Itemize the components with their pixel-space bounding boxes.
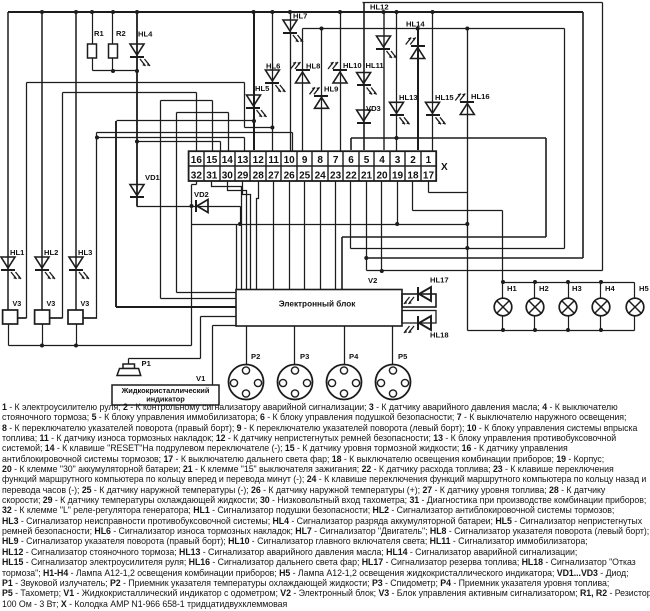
svg-text:P1: P1	[142, 359, 152, 368]
svg-text:HL1: HL1	[10, 248, 25, 257]
svg-text:HL13: HL13	[399, 93, 418, 102]
svg-text:R2: R2	[116, 29, 126, 38]
svg-text:17: 17	[423, 170, 435, 181]
svg-text:VD1: VD1	[145, 173, 161, 182]
svg-text:28: 28	[253, 170, 265, 181]
svg-text:V3: V3	[13, 299, 22, 308]
svg-text:3: 3	[395, 155, 401, 166]
svg-text:11: 11	[268, 155, 279, 166]
svg-text:HL5: HL5	[255, 84, 270, 93]
svg-text:10: 10	[284, 155, 296, 166]
svg-text:22: 22	[346, 170, 358, 181]
svg-text:HL15: HL15	[435, 93, 454, 102]
svg-text:8: 8	[317, 155, 323, 166]
svg-text:30: 30	[222, 170, 234, 181]
svg-text:HL9: HL9	[324, 85, 338, 94]
svg-text:9: 9	[302, 155, 308, 166]
svg-text:V2: V2	[368, 276, 377, 285]
svg-text:H5: H5	[639, 284, 649, 293]
svg-text:HL12: HL12	[370, 3, 389, 12]
svg-text:1: 1	[426, 155, 432, 166]
svg-text:HL4: HL4	[138, 30, 153, 39]
svg-text:HL17: HL17	[430, 276, 449, 285]
svg-text:H2: H2	[539, 284, 549, 293]
svg-text:R1: R1	[94, 29, 104, 38]
svg-text:H1: H1	[507, 284, 517, 293]
svg-text:X: X	[441, 162, 448, 173]
svg-text:5: 5	[364, 155, 370, 166]
svg-text:HL8: HL8	[306, 62, 320, 71]
svg-text:26: 26	[284, 170, 296, 181]
svg-text:16: 16	[191, 155, 203, 166]
svg-text:18: 18	[407, 170, 419, 181]
svg-text:HL18: HL18	[430, 331, 449, 340]
svg-text:7: 7	[333, 155, 339, 166]
svg-text:HL10: HL10	[343, 61, 362, 70]
svg-text:13: 13	[237, 155, 249, 166]
svg-text:P2: P2	[251, 352, 260, 361]
svg-text:HL2: HL2	[44, 248, 58, 257]
svg-text:VD3: VD3	[366, 104, 381, 113]
svg-text:HL14: HL14	[406, 20, 425, 29]
svg-text:HL16: HL16	[471, 92, 490, 101]
svg-text:19: 19	[392, 170, 404, 181]
svg-text:12: 12	[253, 155, 265, 166]
svg-text:27: 27	[268, 170, 280, 181]
svg-text:29: 29	[237, 170, 249, 181]
svg-text:HL6: HL6	[266, 62, 280, 71]
svg-text:24: 24	[315, 170, 327, 181]
svg-text:23: 23	[330, 170, 342, 181]
svg-text:25: 25	[299, 170, 311, 181]
svg-text:V3: V3	[47, 299, 56, 308]
svg-text:H3: H3	[572, 284, 582, 293]
svg-text:4: 4	[379, 155, 385, 166]
svg-text:6: 6	[348, 155, 354, 166]
svg-text:V1: V1	[196, 374, 206, 383]
svg-text:2: 2	[410, 155, 416, 166]
svg-text:HL3: HL3	[78, 248, 92, 257]
svg-text:14: 14	[222, 155, 234, 166]
svg-text:H4: H4	[605, 284, 615, 293]
svg-text:V3: V3	[81, 299, 90, 308]
svg-text:15: 15	[206, 155, 218, 166]
svg-text:HL11: HL11	[366, 61, 385, 70]
svg-text:P3: P3	[300, 352, 309, 361]
svg-text:HL7: HL7	[293, 12, 307, 21]
svg-text:20: 20	[376, 170, 388, 181]
svg-text:Электронный блок: Электронный блок	[279, 299, 357, 309]
svg-text:VD2: VD2	[194, 190, 209, 199]
svg-text:21: 21	[361, 170, 373, 181]
svg-text:P5: P5	[398, 352, 408, 361]
svg-text:32: 32	[191, 170, 203, 181]
svg-text:31: 31	[206, 170, 218, 181]
svg-text:P4: P4	[349, 352, 359, 361]
